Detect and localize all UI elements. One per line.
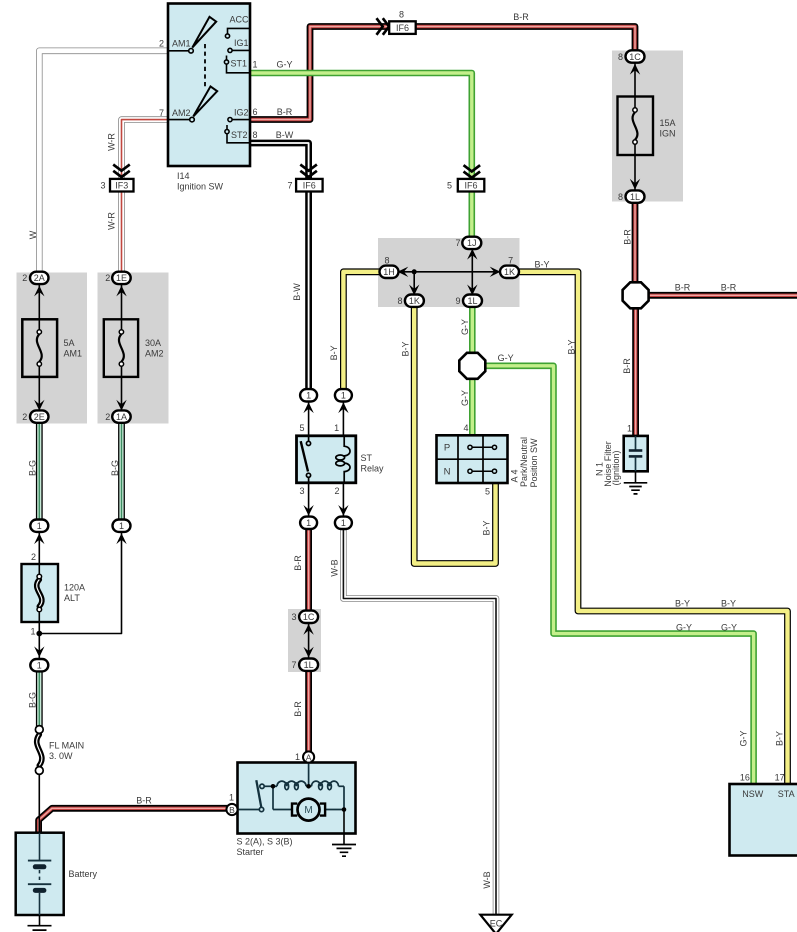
connector 2A [30, 272, 49, 284]
arrow into ST relay pin3 connector [303, 505, 313, 516]
svg-text:G-Y: G-Y [721, 623, 737, 633]
svg-text:3: 3 [291, 612, 296, 622]
battery ground [39, 915, 41, 926]
svg-text:W-R: W-R [106, 133, 116, 151]
svg-text:G-Y: G-Y [738, 730, 748, 746]
120A ALT fusible link symbol [38, 564, 40, 576]
wire G-Y junction to ECM NSW [486, 366, 754, 785]
svg-text:G-Y: G-Y [460, 319, 470, 335]
svg-text:EC: EC [490, 918, 503, 928]
svg-text:2: 2 [105, 412, 110, 422]
wire B-R from IG2 to 1C via IF6 [250, 27, 635, 120]
battery symbol [28, 833, 51, 915]
wire lead fuse AM2 to 1A [121, 366, 123, 418]
ignition switch internals [168, 17, 250, 143]
starter S2(A) S3(B) body [238, 763, 356, 834]
svg-text:A 4: A 4 [509, 469, 519, 482]
chevrons into IF6 pin7 [301, 165, 315, 177]
svg-text:B-Y: B-Y [329, 345, 339, 360]
connector 1C starter harness [299, 611, 318, 623]
arrow into 1C fuse [630, 64, 640, 75]
svg-text:NSW: NSW [742, 789, 764, 799]
junction dot ALT pin 1 [36, 631, 42, 637]
starter internals [238, 763, 345, 845]
svg-text:B-Y: B-Y [481, 520, 491, 535]
svg-text:9: 9 [455, 296, 460, 306]
arrow into ST relay pin5 connector [303, 402, 313, 413]
battery body [16, 833, 64, 915]
svg-text:IF6: IF6 [303, 181, 316, 191]
svg-text:1E: 1E [116, 273, 127, 283]
junction connector IF3 [110, 179, 134, 192]
arrow to 1L below [467, 285, 477, 296]
svg-text:AM1: AM1 [64, 348, 83, 358]
svg-text:B-R: B-R [513, 12, 529, 22]
svg-text:B-R: B-R [293, 555, 303, 571]
ST relay body [297, 436, 356, 483]
wire lead ALT pin 1 to connector [38, 622, 40, 665]
svg-text:P: P [444, 443, 450, 454]
arrow to 1H [398, 267, 409, 277]
svg-text:Battery: Battery [69, 869, 98, 879]
svg-text:1: 1 [37, 521, 42, 531]
wire lead 1E to fuse AM2 [121, 277, 123, 330]
svg-text:B-Y: B-Y [534, 260, 549, 270]
arrow into connector below 1A chain [116, 533, 126, 544]
arrow to 1K below [409, 285, 419, 296]
wire W-B from ST relay pin 2 to EC ground [343, 523, 496, 916]
park/neutral position switch A4 body [437, 435, 508, 483]
svg-text:Park/Neutral: Park/Neutral [519, 437, 529, 487]
svg-text:Ignition SW: Ignition SW [177, 181, 224, 191]
svg-text:IG2: IG2 [234, 107, 249, 117]
wire lead ST relay pin 2 [342, 482, 344, 523]
wire lead 1C to fuse IGN [634, 57, 636, 111]
svg-text:6: 6 [252, 107, 257, 117]
wire lead FL MAIN to battery [38, 772, 40, 833]
starter ground [332, 845, 356, 857]
wire G-Y junction to park/neutral SW pin 4 [469, 378, 476, 436]
svg-text:5A: 5A [64, 338, 75, 348]
svg-text:B-G: B-G [110, 460, 120, 476]
connector 1L below [463, 295, 482, 307]
arrow into 1L starter harness [303, 647, 313, 658]
arrow into 2A [34, 286, 44, 297]
svg-text:Starter: Starter [237, 847, 264, 857]
svg-text:B-R: B-R [136, 796, 152, 806]
connector 1L starter harness [299, 659, 318, 671]
wire lead fuse IGN to 1L [634, 142, 636, 197]
svg-text:1: 1 [30, 626, 35, 636]
svg-text:ST: ST [361, 453, 373, 463]
ignition switch I14 body [168, 4, 250, 167]
wire B-R from 1L fuse to junction [632, 197, 639, 283]
arrow into 1E [116, 286, 126, 297]
svg-text:2: 2 [334, 486, 339, 496]
svg-text:B-R: B-R [622, 358, 632, 374]
svg-text:1: 1 [627, 423, 632, 433]
connector 1 below 2E [30, 520, 48, 532]
ST relay internals [301, 436, 350, 482]
park/neutral position switch internals [437, 435, 508, 483]
noise filter N1 body [624, 436, 648, 471]
svg-text:8: 8 [397, 296, 402, 306]
ignition switch terminal labels [172, 14, 249, 140]
alternator fusible link 120A ALT body [22, 564, 59, 622]
wire lead ST relay pin 5 [308, 395, 310, 436]
junction connector IF6 pin 7 [296, 179, 323, 192]
svg-text:8: 8 [384, 255, 389, 265]
fuse block shade (15A IGN) [612, 51, 683, 202]
svg-text:1: 1 [306, 391, 311, 401]
svg-text:1K: 1K [504, 267, 515, 277]
fuse 30A AM2 [104, 319, 138, 377]
arrow into 2E [34, 400, 44, 411]
connector 1K right [500, 266, 519, 278]
svg-text:1: 1 [252, 60, 257, 70]
svg-text:7: 7 [455, 238, 460, 248]
svg-text:17: 17 [775, 772, 785, 782]
svg-text:G-Y: G-Y [676, 623, 692, 633]
svg-text:4: 4 [463, 423, 468, 433]
svg-text:B-G: B-G [27, 692, 37, 708]
svg-text:1H: 1H [383, 267, 395, 277]
connector 1A [112, 410, 131, 422]
wire G-Y from ST1 to 1J via IF6 [250, 73, 472, 242]
svg-text:B: B [229, 805, 235, 815]
svg-text:(Ignition): (Ignition) [611, 450, 621, 485]
arrow into 1L fuse [630, 179, 640, 190]
wire B-G from 1A [118, 419, 125, 526]
svg-text:IGN: IGN [660, 128, 676, 138]
svg-text:1: 1 [334, 423, 339, 433]
svg-text:2: 2 [105, 273, 110, 283]
svg-text:B-W: B-W [292, 283, 302, 301]
chevrons into IF6 pin5 [465, 166, 479, 178]
junction connector IF6 pin 5 [458, 179, 485, 192]
chevrons into IF6 pin8 [377, 19, 389, 33]
svg-text:15A: 15A [660, 118, 676, 128]
wire B-W from ST2 to ST relay via IF6 [250, 143, 309, 395]
svg-text:B-R: B-R [675, 283, 691, 293]
wire B-R junction to right edge [649, 292, 797, 299]
svg-text:2: 2 [159, 38, 164, 48]
FL MAIN fusible link [37, 735, 42, 766]
svg-text:IF6: IF6 [464, 181, 477, 191]
svg-text:8: 8 [252, 130, 257, 140]
junction node G-Y [459, 353, 485, 379]
svg-text:1K: 1K [409, 296, 420, 306]
svg-text:2A: 2A [34, 273, 45, 283]
svg-text:I14: I14 [177, 171, 190, 181]
fuse block shade (5A AM1) [17, 273, 88, 424]
ECM body [730, 784, 797, 856]
arrow into connector below 2E chain [34, 533, 44, 544]
svg-text:W-B: W-B [482, 871, 492, 888]
svg-text:7: 7 [508, 255, 513, 265]
svg-text:7: 7 [159, 108, 164, 118]
svg-text:AM2: AM2 [172, 108, 191, 118]
connector 1E [112, 272, 131, 284]
svg-text:1: 1 [37, 661, 42, 671]
svg-text:120A: 120A [64, 582, 85, 592]
svg-text:B-Y: B-Y [721, 598, 736, 608]
wire lead ST relay pin 1 [342, 395, 344, 436]
wire lead 1C to 1L starter harness [308, 617, 310, 664]
svg-text:1A: 1A [116, 412, 127, 422]
EC ground triangle [480, 915, 511, 932]
junction block shade (1H/1J/1K/1L) [378, 238, 520, 307]
junction node B-R [623, 282, 649, 308]
connector 2E [30, 410, 49, 422]
svg-text:2: 2 [22, 412, 27, 422]
svg-text:B-Y: B-Y [675, 598, 690, 608]
junction block internal wiring [397, 271, 501, 273]
svg-text:W-B: W-B [329, 559, 339, 576]
fuse 15A IGN [618, 97, 654, 156]
wire lead connector to ALT pin 2 [38, 526, 40, 565]
svg-text:B-Y: B-Y [774, 731, 784, 746]
wire B-R from 1L to starter A [305, 665, 312, 754]
arrow into connector above FL MAIN [34, 646, 44, 657]
svg-text:AM1: AM1 [172, 38, 191, 48]
svg-text:FL MAIN: FL MAIN [49, 740, 84, 750]
svg-text:3: 3 [299, 486, 304, 496]
svg-text:3. 0W: 3. 0W [49, 751, 73, 761]
wire lead ST relay pin 3 [308, 482, 310, 523]
svg-text:1L: 1L [630, 192, 640, 202]
connector shade (1C/1L starter harness) [288, 609, 321, 672]
wire W-R from AM2 to 1E via IF3 [122, 120, 169, 277]
connector 1 relay pin1 [335, 389, 352, 401]
svg-text:5: 5 [485, 486, 490, 496]
wire B-G to FL MAIN [36, 665, 43, 727]
svg-text:3: 3 [100, 181, 105, 191]
fuse 5A AM1 [22, 319, 57, 377]
svg-text:ALT: ALT [64, 593, 80, 603]
svg-text:1: 1 [341, 518, 346, 528]
svg-text:ST2: ST2 [231, 130, 248, 140]
noise filter capacitor [629, 436, 643, 471]
connector 1 above FL MAIN [30, 659, 48, 671]
svg-text:8: 8 [399, 10, 404, 20]
connector 1K below [405, 295, 424, 307]
connector 1 relay pin5 [300, 389, 317, 401]
svg-text:8: 8 [618, 52, 623, 62]
wire G-Y from 1L to junction [469, 304, 476, 354]
svg-text:1: 1 [306, 518, 311, 528]
svg-text:N: N [444, 467, 451, 478]
svg-text:B-Y: B-Y [400, 341, 410, 356]
fuse block shade (30A AM2) [98, 273, 169, 424]
arrow to 1J [467, 249, 477, 260]
noise filter ground [635, 471, 637, 483]
svg-text:G-Y: G-Y [460, 390, 470, 406]
svg-text:A: A [306, 752, 312, 762]
svg-text:Relay: Relay [361, 464, 385, 474]
connector 1L fuse [626, 190, 645, 202]
svg-text:IF3: IF3 [115, 181, 128, 191]
svg-text:7: 7 [291, 660, 296, 670]
svg-text:2: 2 [22, 273, 27, 283]
svg-text:B-Y: B-Y [566, 339, 576, 354]
svg-text:B-R: B-R [622, 229, 632, 245]
svg-text:5: 5 [299, 423, 304, 433]
svg-text:1C: 1C [629, 52, 641, 62]
wire B-R from battery to starter B [39, 808, 228, 833]
svg-text:1C: 1C [303, 612, 315, 622]
svg-text:2: 2 [31, 552, 36, 562]
svg-text:W: W [28, 230, 38, 239]
svg-text:G-Y: G-Y [498, 353, 514, 363]
wire B-G from 2E [36, 419, 43, 526]
wire B-R from ST relay pin 3 to 1C [305, 523, 312, 617]
svg-text:ST1: ST1 [230, 59, 247, 69]
svg-text:16: 16 [740, 772, 750, 782]
svg-text:AM2: AM2 [145, 348, 164, 358]
wire lead fuse AM1 to 2E [38, 366, 40, 418]
svg-text:IF6: IF6 [396, 23, 409, 33]
svg-text:5: 5 [447, 181, 452, 191]
svg-text:1: 1 [229, 793, 234, 803]
wire B-Y from 1K to ECM STA [517, 272, 788, 785]
svg-text:1L: 1L [467, 296, 477, 306]
svg-text:1: 1 [341, 391, 346, 401]
svg-text:G-Y: G-Y [276, 60, 292, 70]
arrow into ST relay pin2 connector [338, 505, 348, 516]
svg-text:2E: 2E [34, 412, 45, 422]
connector 1 below 1A [113, 520, 131, 532]
connector 1H [380, 266, 399, 278]
starter terminal B [226, 804, 237, 815]
svg-text:B-R: B-R [277, 107, 293, 117]
svg-text:1L: 1L [304, 660, 314, 670]
starter terminal A [303, 751, 314, 762]
svg-text:Position SW: Position SW [529, 438, 539, 488]
svg-text:1: 1 [295, 752, 300, 762]
wire B-Y from 1H to ST relay coil [343, 272, 382, 395]
svg-text:1J: 1J [467, 238, 477, 248]
wire W from AM1 to 2A [39, 51, 168, 277]
svg-text:1: 1 [119, 521, 124, 531]
connector 1C fuse [626, 50, 645, 62]
wire B-R junction to noise filter [632, 308, 639, 437]
connector 1 relay pin2 [335, 517, 352, 529]
connector 1J [462, 237, 481, 249]
wire B-Y from 1K to park/neutral SW pin 5 [414, 304, 495, 564]
svg-text:STA: STA [778, 789, 795, 799]
arrow to 1K right [490, 267, 501, 277]
svg-text:ACC: ACC [229, 14, 249, 24]
wire lead connector down right chain [39, 526, 121, 634]
svg-text:IG1: IG1 [234, 38, 249, 48]
wire lead 2A to fuse AM1 [38, 277, 40, 330]
svg-text:B-G: B-G [27, 460, 37, 476]
svg-text:7: 7 [287, 181, 292, 191]
svg-text:8: 8 [618, 192, 623, 202]
chevrons into IF3 [114, 165, 128, 177]
svg-text:B-R: B-R [293, 701, 303, 717]
junction connector IF6 pin 8 [389, 21, 416, 34]
arrow into 1C starter harness [303, 624, 313, 635]
arrow into 1A [116, 400, 126, 411]
connector 1 relay pin3 [300, 517, 317, 529]
svg-text:30A: 30A [145, 338, 161, 348]
svg-text:B-W: B-W [276, 130, 294, 140]
svg-text:B-R: B-R [721, 283, 737, 293]
arrow into ST relay pin1 connector [338, 402, 348, 413]
svg-text:M: M [304, 805, 312, 816]
svg-text:W-R: W-R [106, 212, 116, 230]
svg-text:S 2(A), S 3(B): S 2(A), S 3(B) [237, 836, 293, 846]
